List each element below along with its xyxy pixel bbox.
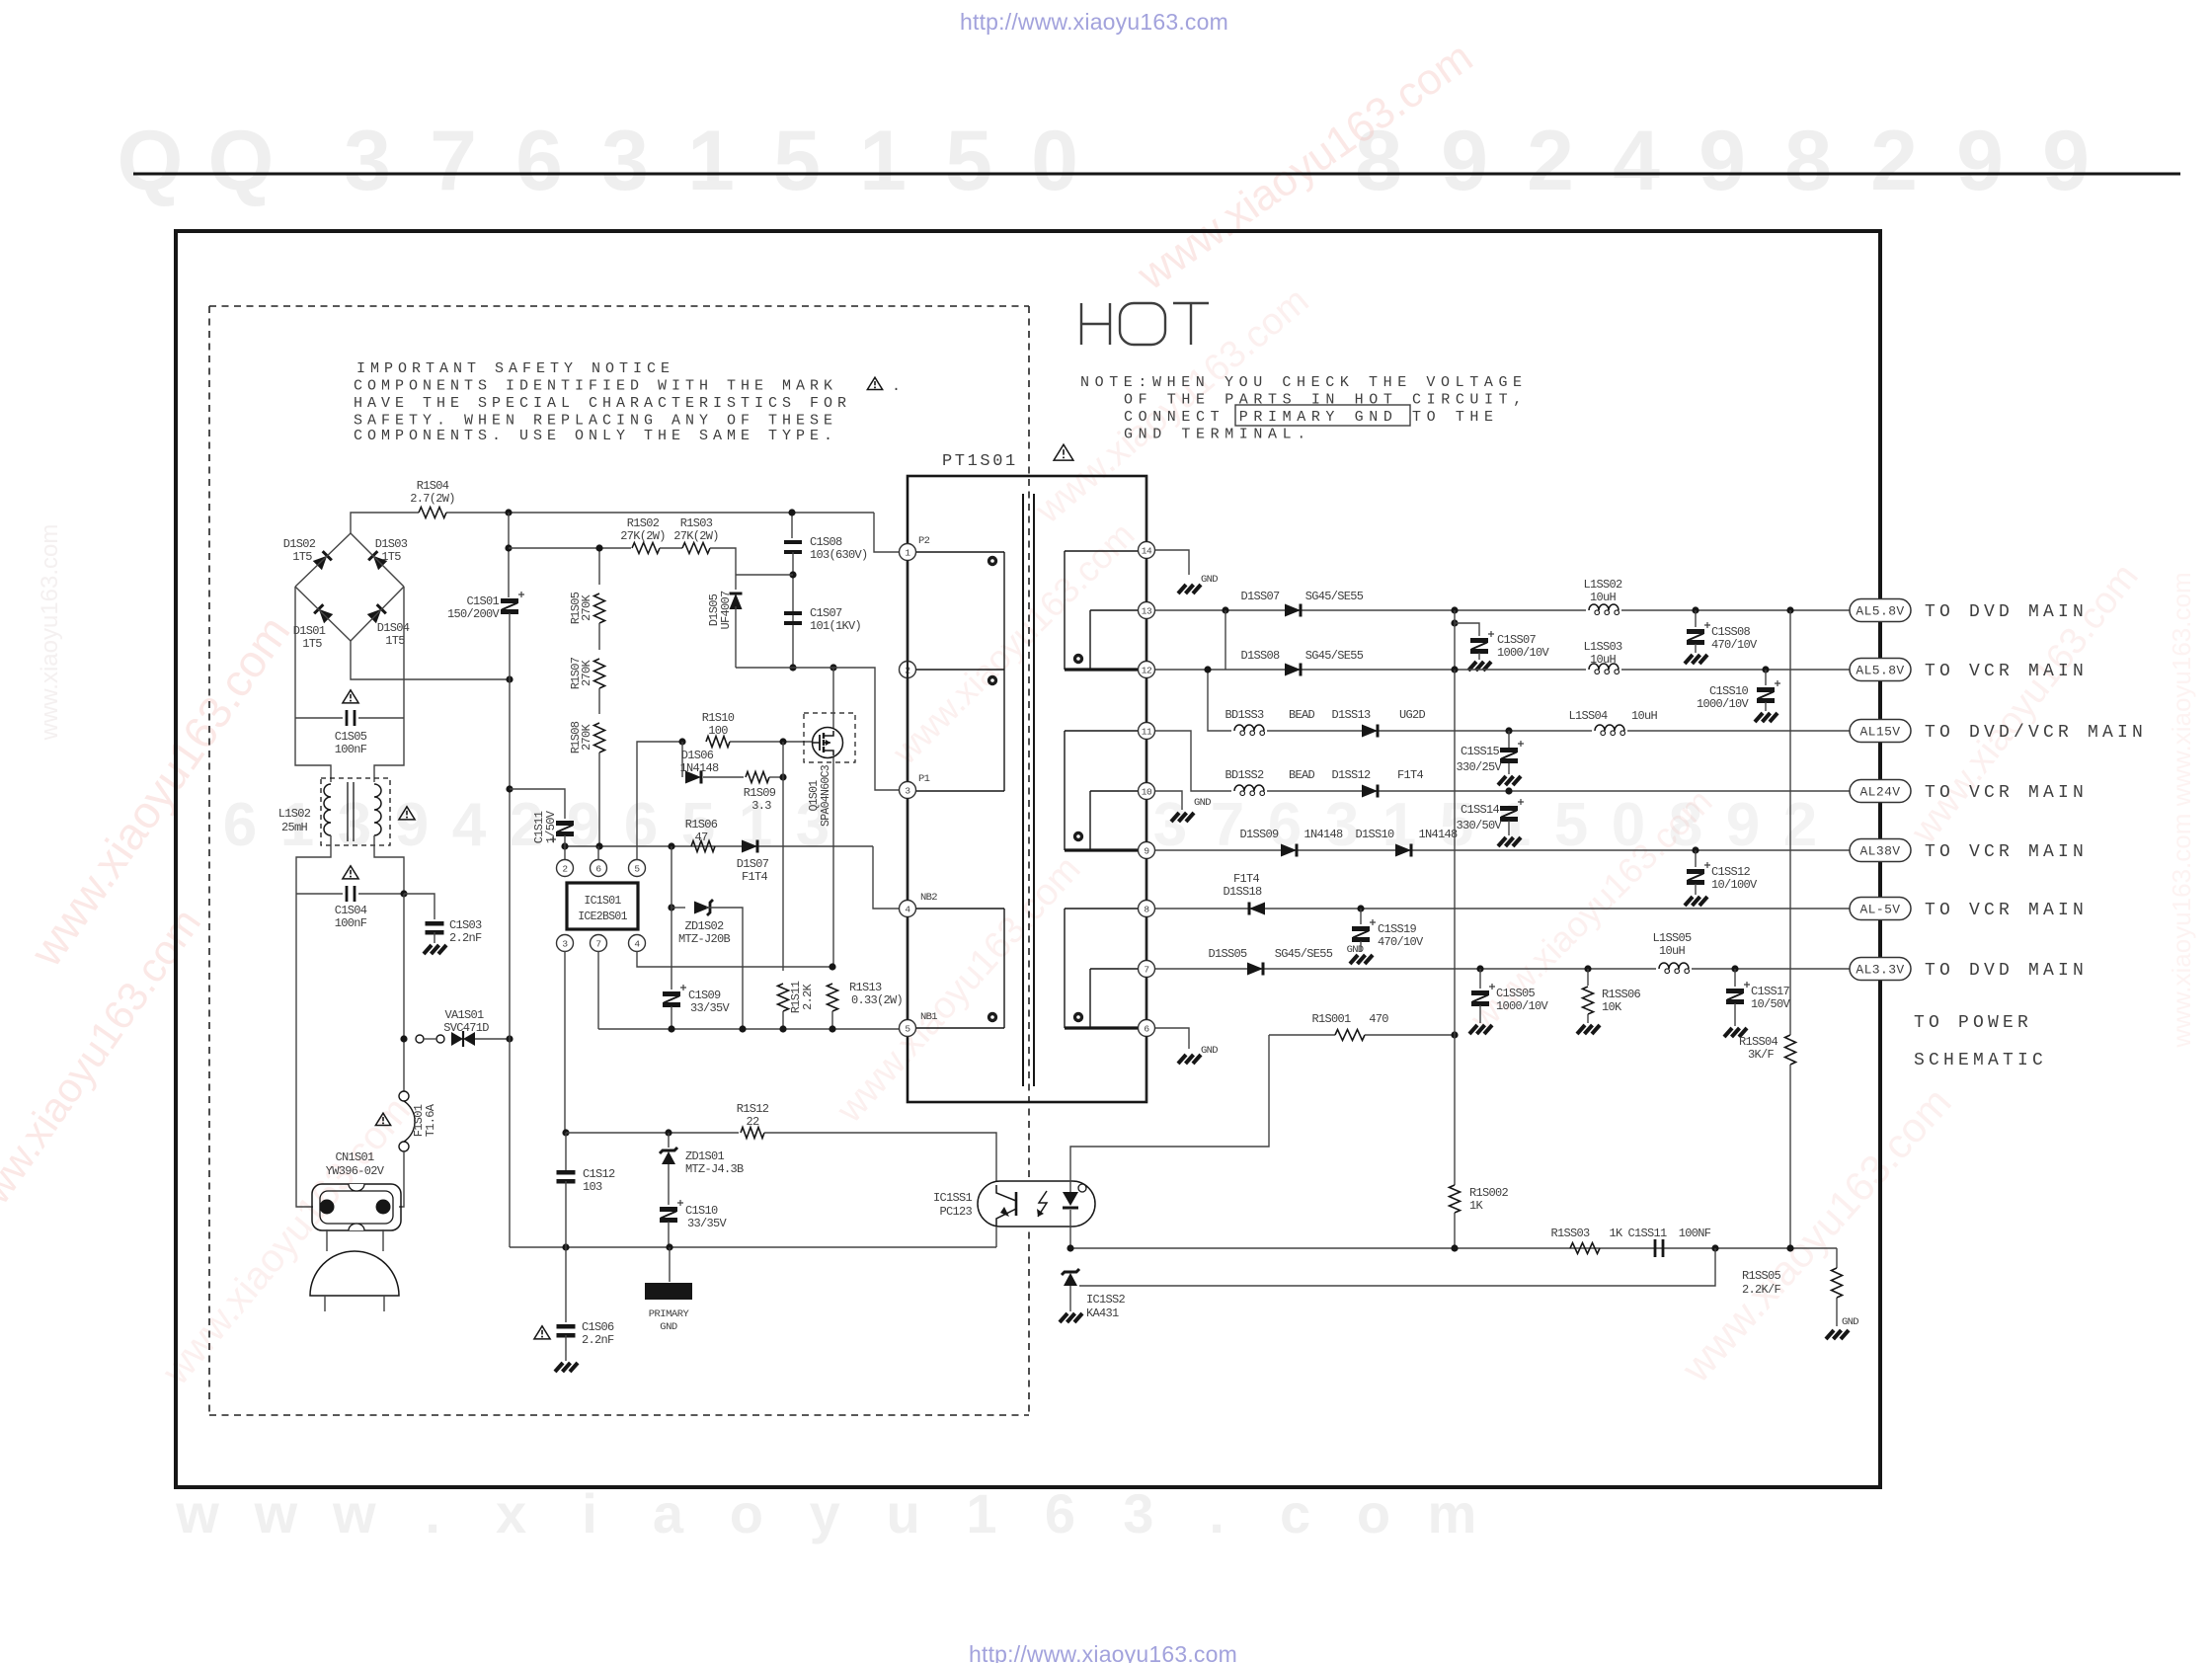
wire row24V from pin11 xyxy=(1155,731,1850,791)
svg-text:1: 1 xyxy=(687,114,735,208)
wire NB2 to pin4 xyxy=(873,846,900,909)
svg-text:6: 6 xyxy=(1045,1482,1075,1544)
svg-text:m: m xyxy=(1428,1482,1477,1544)
fuse F1S01 xyxy=(399,1091,409,1101)
svg-text:R1S001: R1S001 xyxy=(1311,1012,1351,1026)
svg-text:D1S02: D1S02 xyxy=(283,537,316,551)
svg-text:5: 5 xyxy=(1554,791,1588,859)
resistor R1S002 xyxy=(1454,1035,1456,1185)
transformer pin 7 xyxy=(1139,961,1155,978)
svg-text:2.2K/F: 2.2K/F xyxy=(1742,1283,1781,1297)
svg-text:2: 2 xyxy=(1783,791,1817,859)
svg-text:BD1SS3: BD1SS3 xyxy=(1224,708,1264,722)
inductor L1SS03 xyxy=(1586,659,1621,671)
ground R1SS06 xyxy=(1577,1025,1585,1034)
svg-text:MTZ-J20B: MTZ-J20B xyxy=(678,932,731,946)
wire opto cathode xyxy=(1069,1227,1071,1248)
svg-text:TO VCR MAIN: TO VCR MAIN xyxy=(1925,783,2088,803)
polarity dot primary mid xyxy=(987,675,997,685)
svg-text:R1S13: R1S13 xyxy=(849,981,882,994)
svg-text:2.7(2W): 2.7(2W) xyxy=(410,492,455,506)
svg-text:C1S10: C1S10 xyxy=(685,1204,718,1218)
wire D1SS08 branch xyxy=(1224,610,1226,670)
wire pin3 down xyxy=(564,951,566,1133)
svg-text:www.xiaoyu163.com www.xiaoyu: www.xiaoyu163.com www.xiaoyu163.com xyxy=(2167,572,2196,1048)
svg-text:6: 6 xyxy=(595,863,601,874)
svg-text:D1SS05: D1SS05 xyxy=(1208,947,1247,961)
warning triangle beside PT1S01 xyxy=(1054,444,1073,460)
wire CS line pin4 xyxy=(637,951,832,967)
svg-text:33/35V: 33/35V xyxy=(687,1217,728,1230)
inductor L1SS05 xyxy=(1656,958,1692,970)
opto LED xyxy=(1063,1192,1078,1206)
svg-text:10uH: 10uH xyxy=(1590,653,1617,667)
wire opto anode loop xyxy=(1070,1035,1269,1181)
svg-text:0.33(2W): 0.33(2W) xyxy=(851,993,903,1007)
resistor R1S10 xyxy=(678,738,685,745)
transformer pin 10 xyxy=(1139,783,1155,800)
svg-text:w: w xyxy=(175,1482,219,1544)
ground C1SS12 xyxy=(1685,897,1693,906)
svg-text:1000/10V: 1000/10V xyxy=(1697,697,1750,711)
svg-text:1: 1 xyxy=(905,547,910,558)
wire C1S11 node xyxy=(510,789,565,819)
svg-text:150/200V: 150/200V xyxy=(447,607,501,621)
svg-text:27K(2W): 27K(2W) xyxy=(673,529,719,543)
polarity dot sec3 xyxy=(1073,1012,1083,1022)
svg-text:w: w xyxy=(332,1482,376,1544)
svg-text:10uH: 10uH xyxy=(1631,709,1658,723)
svg-text:x: x xyxy=(496,1482,526,1544)
svg-text:2.2nF: 2.2nF xyxy=(582,1333,614,1347)
wire AC right column xyxy=(374,587,404,782)
watermark pink diagonal texts xyxy=(20,606,300,976)
transformer pin 14 xyxy=(1139,542,1155,559)
ground KA431 xyxy=(1060,1313,1067,1322)
HOT title xyxy=(1081,303,1209,345)
svg-text:SCHEMATIC: SCHEMATIC xyxy=(1914,1051,2047,1070)
svg-text:L1SS05: L1SS05 xyxy=(1652,931,1692,945)
svg-text:SPA04N60C3: SPA04N60C3 xyxy=(820,764,832,827)
svg-text:4: 4 xyxy=(452,791,487,859)
svg-text:D1SS10: D1SS10 xyxy=(1355,828,1394,841)
capacitor C1S07 xyxy=(784,611,802,615)
svg-text:C1S09: C1S09 xyxy=(688,989,721,1002)
svg-text:1: 1 xyxy=(859,114,907,208)
MOSFET Q1S01 dashed box xyxy=(804,713,855,762)
svg-text:3.3: 3.3 xyxy=(751,799,771,813)
diode D1SS05 xyxy=(1247,963,1263,976)
svg-text:BD1SS2: BD1SS2 xyxy=(1224,768,1264,782)
svg-text:1T5: 1T5 xyxy=(381,550,401,564)
svg-text:D1SS07: D1SS07 xyxy=(1240,590,1280,603)
net label AL15V xyxy=(1850,720,1911,743)
wire choke to C1S04 right xyxy=(374,835,404,894)
svg-text:2: 2 xyxy=(1870,114,1918,208)
diode D1SS08 xyxy=(1285,664,1301,676)
svg-text:5: 5 xyxy=(773,114,821,208)
svg-text:47: 47 xyxy=(694,831,708,844)
svg-text:COMPONENTS. USE ONLY THE SAME: COMPONENTS. USE ONLY THE SAME TYPE. xyxy=(354,428,837,444)
diode D1SS10 xyxy=(1395,844,1411,857)
svg-text:3: 3 xyxy=(905,785,910,796)
zener ZD1S02 xyxy=(668,904,674,911)
svg-text:3: 3 xyxy=(1325,791,1359,859)
svg-text:5: 5 xyxy=(634,863,640,874)
resistor R1S001 xyxy=(1269,1034,1335,1036)
svg-text:3: 3 xyxy=(562,938,568,949)
svg-text:SVC471D: SVC471D xyxy=(443,1021,489,1035)
zener ZD1S01 xyxy=(665,1129,671,1136)
svg-text:KA431: KA431 xyxy=(1086,1307,1119,1320)
svg-text:IC1SS2: IC1SS2 xyxy=(1086,1293,1126,1307)
capacitor C1SS15 xyxy=(1508,731,1510,749)
svg-text:C1SS11: C1SS11 xyxy=(1627,1227,1667,1240)
svg-text:27K(2W): 27K(2W) xyxy=(620,529,666,543)
svg-text:6: 6 xyxy=(624,791,658,859)
svg-text:1T5: 1T5 xyxy=(292,550,312,564)
transformer aux winding box xyxy=(908,908,1004,910)
svg-text:2: 2 xyxy=(1527,114,1574,208)
diode D1S07 xyxy=(742,840,757,853)
svg-text:10: 10 xyxy=(1142,786,1152,797)
transformer core lines xyxy=(1022,494,1024,1086)
svg-text:NOTE:WHEN YOU CHECK THE VOLTAG: NOTE:WHEN YOU CHECK THE VOLTAGE xyxy=(1080,374,1528,391)
svg-text:R1S04: R1S04 xyxy=(417,479,449,493)
svg-text:1K: 1K xyxy=(1609,1227,1623,1240)
rail 3.3V row7 xyxy=(1155,968,1850,970)
svg-text:10uH: 10uH xyxy=(1659,944,1686,958)
diode D1SS12 xyxy=(1362,785,1378,798)
svg-text:y: y xyxy=(810,1482,840,1544)
svg-text:2.2nF: 2.2nF xyxy=(449,931,482,945)
svg-text:L1SS02: L1SS02 xyxy=(1583,578,1622,592)
wire pin14 gnd xyxy=(1155,550,1189,575)
transformer secondary winding box 8-6 xyxy=(1064,909,1066,1028)
net label AL38V xyxy=(1850,839,1911,862)
wire AC left column xyxy=(295,587,331,782)
HOT area dashed boundary xyxy=(209,305,1029,307)
safety notice warning mark xyxy=(867,377,882,389)
svg-text:1000/10V: 1000/10V xyxy=(1496,999,1549,1013)
wire feedback column from rail13 xyxy=(1454,670,1456,1035)
inductor L1SS02 xyxy=(1586,599,1621,611)
svg-text:R1S10: R1S10 xyxy=(702,711,735,725)
wire pin7 down xyxy=(597,951,599,1029)
svg-text:10K: 10K xyxy=(1602,1000,1622,1014)
transformer secondary winding box 11-9 xyxy=(1064,731,1066,850)
transformer primary winding box xyxy=(908,551,1004,553)
svg-text:22: 22 xyxy=(746,1115,759,1129)
capacitor C1S03 xyxy=(400,890,407,897)
svg-text:C1SS05: C1SS05 xyxy=(1496,987,1536,1000)
svg-text:R1SS06: R1SS06 xyxy=(1602,988,1641,1001)
transformer pin 12 xyxy=(1139,662,1155,678)
svg-text:GND: GND xyxy=(1347,944,1364,956)
transformer pin 9 xyxy=(1139,842,1155,859)
capacitor C1S12 xyxy=(557,1170,576,1175)
svg-text:F1T4: F1T4 xyxy=(1397,768,1424,782)
IC1S01 pin 3 xyxy=(557,935,574,952)
diode D1S06 xyxy=(681,742,683,777)
svg-text:.: . xyxy=(892,378,900,395)
transformer PT1S01 outline xyxy=(908,476,1146,1102)
svg-text:103: 103 xyxy=(583,1180,602,1194)
svg-text:R1S09: R1S09 xyxy=(744,786,776,800)
MOSFET Q1S01 drain source wire xyxy=(832,668,834,731)
ground C1S06 xyxy=(555,1363,563,1372)
svg-text:C1S05: C1S05 xyxy=(335,730,367,744)
optocoupler IC1SS1 PC123 xyxy=(978,1181,1095,1227)
ground C1SS05 xyxy=(1469,1025,1477,1034)
transformer pin 2 xyxy=(900,662,916,678)
resistor R1S09 xyxy=(703,776,744,778)
transformer pin 8 xyxy=(1139,901,1155,917)
transformer pin 11 xyxy=(1139,723,1155,740)
svg-text:L1SS04: L1SS04 xyxy=(1568,709,1608,723)
svg-text:100: 100 xyxy=(708,724,728,738)
svg-text:PT1S01: PT1S01 xyxy=(942,452,1018,471)
svg-text:9: 9 xyxy=(2042,114,2090,208)
net label AL5.8V dvd xyxy=(1850,599,1911,622)
svg-text:c: c xyxy=(1280,1482,1310,1544)
svg-text:8: 8 xyxy=(1144,904,1149,914)
svg-text:470/10V: 470/10V xyxy=(1378,935,1424,949)
svg-text:SG45/SE55: SG45/SE55 xyxy=(1305,649,1364,663)
ground C1SS10 xyxy=(1755,713,1763,722)
diode D1S05 xyxy=(730,594,743,609)
svg-text:D1SS08: D1SS08 xyxy=(1240,649,1280,663)
wire 5.8V sense column xyxy=(1789,610,1791,1035)
svg-text:7: 7 xyxy=(430,114,477,208)
resistor R1SS06 xyxy=(1587,969,1589,986)
svg-text:w: w xyxy=(254,1482,298,1544)
resistor R1S02 xyxy=(632,543,660,554)
svg-text:R1SS04: R1SS04 xyxy=(1739,1035,1778,1049)
svg-text:C1SS08: C1SS08 xyxy=(1711,625,1751,639)
svg-text:SG45/SE55: SG45/SE55 xyxy=(1275,947,1333,961)
main border xyxy=(176,231,1880,1487)
svg-text:SAFETY. WHEN REPLACING ANY OF: SAFETY. WHEN REPLACING ANY OF THESE xyxy=(354,413,837,430)
resistor R1SS03 xyxy=(1570,1243,1600,1254)
svg-text:C1S06: C1S06 xyxy=(582,1320,614,1334)
svg-text:C1S12: C1S12 xyxy=(583,1167,615,1181)
svg-text:9: 9 xyxy=(1726,791,1760,859)
rail 5.8V VCR row12 xyxy=(1155,669,1850,671)
svg-text:D1SS13: D1SS13 xyxy=(1331,708,1371,722)
svg-text:PC123: PC123 xyxy=(939,1205,972,1219)
svg-text:www.xiaoyu163.com: www.xiaoyu163.com xyxy=(37,524,63,742)
wire secondary feedback rail xyxy=(1070,1247,1837,1249)
svg-text:GND: GND xyxy=(1194,797,1211,809)
svg-text:5: 5 xyxy=(945,114,992,208)
svg-text:2.2K: 2.2K xyxy=(801,984,815,1011)
svg-text:NB2: NB2 xyxy=(920,892,937,904)
ground pin6 xyxy=(1178,1055,1186,1064)
svg-text:T1.6A: T1.6A xyxy=(424,1103,437,1137)
MOSFET Q1S01 xyxy=(813,728,843,758)
transformer pin 4 xyxy=(900,901,916,917)
svg-text:R1SS03: R1SS03 xyxy=(1550,1227,1590,1240)
svg-text:MTZ-J4.3B: MTZ-J4.3B xyxy=(685,1162,744,1176)
diode bridge D1S01 xyxy=(314,604,333,623)
choke L1S02 windings xyxy=(324,784,331,835)
wire source rail NB1 xyxy=(598,1028,900,1030)
resistor chain R1S08 xyxy=(598,688,600,714)
net label AL24V xyxy=(1850,780,1911,803)
svg-text:C1SS12: C1SS12 xyxy=(1711,865,1751,879)
capacitor C1SS05 xyxy=(1479,969,1481,989)
svg-text:i: i xyxy=(582,1482,597,1544)
svg-text:7: 7 xyxy=(1144,964,1148,975)
svg-text:D1S06: D1S06 xyxy=(681,749,714,762)
wire feedback rail R1S12 xyxy=(562,1129,569,1136)
svg-text:9: 9 xyxy=(1698,114,1746,208)
wire gate node vertical xyxy=(779,738,786,745)
svg-text:R1S06: R1S06 xyxy=(685,818,718,831)
svg-text:D1S03: D1S03 xyxy=(375,537,408,551)
PRIMARY GND box in note xyxy=(1235,405,1410,426)
svg-text:R1SS05: R1SS05 xyxy=(1742,1269,1781,1283)
svg-text:1: 1 xyxy=(966,1482,996,1544)
svg-text:270K: 270K xyxy=(580,594,593,622)
svg-text:C1SS10: C1SS10 xyxy=(1709,684,1749,698)
warning triangle L1S02 xyxy=(399,807,415,820)
svg-text:3: 3 xyxy=(338,791,371,859)
diode D1SS09 xyxy=(1281,844,1297,857)
resistor R1S13 xyxy=(828,984,838,1011)
svg-text:6: 6 xyxy=(223,791,257,859)
ground C1SS17 xyxy=(1724,1028,1732,1037)
wire choke to C1S04 left xyxy=(296,835,331,894)
svg-text:IMPORTANT SAFETY NOTICE: IMPORTANT SAFETY NOTICE xyxy=(356,360,674,377)
resistor R1S06 xyxy=(691,841,715,852)
rail -5V row8 xyxy=(1155,908,1850,910)
svg-text:14: 14 xyxy=(1142,545,1152,556)
capacitor C1S08 xyxy=(791,513,793,538)
svg-text:270K: 270K xyxy=(580,724,593,752)
ground pin14 xyxy=(1178,585,1186,594)
capacitor C1S10 xyxy=(660,1207,677,1212)
ground C1SS14 xyxy=(1498,837,1506,846)
svg-text:9: 9 xyxy=(1144,845,1149,856)
diode bridge D1S04 xyxy=(367,604,386,623)
svg-text:IC1SS1: IC1SS1 xyxy=(933,1191,973,1205)
svg-text:2: 2 xyxy=(562,863,568,874)
svg-text:1N4148: 1N4148 xyxy=(1303,828,1343,841)
svg-text:TO VCR MAIN: TO VCR MAIN xyxy=(1925,842,2088,862)
net label AL-5V xyxy=(1850,898,1911,920)
svg-text:AL38V: AL38V xyxy=(1859,844,1900,859)
capacitor C1S11 xyxy=(556,821,574,826)
svg-text:AL5.8V: AL5.8V xyxy=(1856,604,1904,619)
mains plug xyxy=(326,1229,328,1251)
ground R1SS05 xyxy=(1826,1330,1834,1339)
svg-text:C1S03: C1S03 xyxy=(449,918,482,932)
svg-text:1: 1 xyxy=(1497,791,1531,859)
IC1S01 pin 4 xyxy=(629,935,646,952)
transformer pin 6 xyxy=(1139,1020,1155,1037)
polarity dot sec1 xyxy=(1073,654,1083,664)
svg-text:13: 13 xyxy=(1142,605,1152,616)
svg-text:NB1: NB1 xyxy=(920,1011,937,1023)
svg-text:270K: 270K xyxy=(580,660,593,687)
IC1S01 pin 5 xyxy=(629,860,646,877)
svg-text:P2: P2 xyxy=(918,535,930,547)
capacitor C1S09 xyxy=(671,846,672,990)
svg-text:ZD1S02: ZD1S02 xyxy=(684,919,724,933)
svg-text:o: o xyxy=(1357,1482,1390,1544)
ground C1SS07 xyxy=(1468,662,1476,671)
wire bridge minus to C1S01 line xyxy=(351,641,510,679)
svg-text:C1S04: C1S04 xyxy=(335,904,367,917)
capacitor C1S06 xyxy=(565,1247,567,1322)
svg-text:GND: GND xyxy=(1842,1316,1858,1328)
IC1S01 pin 7 xyxy=(591,935,607,952)
ground C1SS15 xyxy=(1498,776,1506,785)
capacitor C1SS19 xyxy=(1360,909,1362,924)
transformer left edge wires xyxy=(907,560,908,782)
svg-text:100nF: 100nF xyxy=(335,916,367,930)
wire HV rail from bridge to pin1 xyxy=(351,513,419,533)
svg-text:100nF: 100nF xyxy=(335,743,367,756)
svg-text:YW396-02V: YW396-02V xyxy=(326,1164,385,1178)
svg-text:AL3.3V: AL3.3V xyxy=(1856,963,1904,978)
svg-text:R1S002: R1S002 xyxy=(1469,1186,1509,1200)
wire left column to connector xyxy=(296,894,313,1207)
resistor chain R1S05 xyxy=(598,548,600,585)
svg-text:CONNECT PRIMARY GND TO THE: CONNECT PRIMARY GND TO THE xyxy=(1124,409,1499,426)
svg-text:TO VCR MAIN: TO VCR MAIN xyxy=(1925,901,2088,920)
svg-text:10uH: 10uH xyxy=(1590,591,1617,604)
wire snubber down xyxy=(710,548,736,590)
ground pin10 xyxy=(1171,813,1179,822)
svg-text:GND: GND xyxy=(1201,1045,1218,1057)
svg-text:10/100V: 10/100V xyxy=(1711,878,1758,892)
wire row11 from pin12 xyxy=(1208,670,1850,731)
svg-text:470/10V: 470/10V xyxy=(1711,638,1758,652)
svg-text:L1S02: L1S02 xyxy=(278,807,311,821)
capacitor C1SS07 xyxy=(1470,638,1488,643)
svg-text:AL-5V: AL-5V xyxy=(1859,903,1900,917)
varistor VA1S01 xyxy=(400,1035,407,1042)
svg-text:R1S12: R1S12 xyxy=(737,1102,769,1116)
capacitor C1SS17 xyxy=(1734,969,1736,987)
resistor R1SS04 xyxy=(1785,1035,1796,1065)
svg-text:http://www.xiaoyu163.com: http://www.xiaoyu163.com xyxy=(969,1641,1237,1663)
transformer pin 3 xyxy=(900,782,916,799)
svg-text:ZD1S01: ZD1S01 xyxy=(685,1149,725,1163)
svg-text:D1S04: D1S04 xyxy=(377,621,410,635)
svg-text:25mH: 25mH xyxy=(281,821,308,834)
bead BD1SS3 xyxy=(1231,720,1267,732)
svg-text:1T5: 1T5 xyxy=(385,634,405,648)
diode bridge D1S03 xyxy=(368,551,387,570)
svg-text:BEAD: BEAD xyxy=(1289,768,1315,782)
svg-text:IC1S01: IC1S01 xyxy=(584,895,621,908)
svg-text:101(1KV): 101(1KV) xyxy=(810,619,861,633)
svg-text:C1S07: C1S07 xyxy=(810,606,842,620)
diode D1SS07 xyxy=(1285,604,1301,617)
capacitor C1SS14 xyxy=(1500,806,1518,811)
transformer pin 13 xyxy=(1139,602,1155,619)
top separator line xyxy=(133,173,2180,176)
diode D1SS13 xyxy=(1362,725,1378,738)
svg-text:.: . xyxy=(425,1482,440,1544)
net label AL3.3V xyxy=(1850,958,1911,981)
capacitor C1SS10 xyxy=(1765,670,1767,685)
junction C1S01 top xyxy=(505,509,512,515)
